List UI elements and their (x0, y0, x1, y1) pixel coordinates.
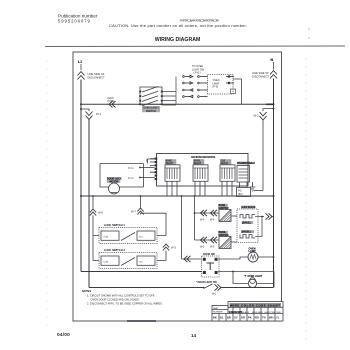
S2 left contact block (101, 231, 119, 240)
junction dot lamp/N (273, 256, 275, 258)
S3 left contact block (101, 256, 119, 265)
svg-text:OR: OR (241, 316, 245, 320)
U1 left pin strip (155, 158, 158, 181)
svg-text:LOCK SWITCH 1: LOCK SWITCH 1 (104, 223, 125, 227)
svg-text:LINE SIDE OF: LINE SIDE OF (252, 71, 269, 75)
relay K1 (bake) label (165, 159, 176, 164)
lamp receptacle label (213, 79, 220, 89)
V1 broil coil (240, 235, 255, 239)
wire receptacle row1 to main bus (233, 79, 242, 104)
table header text (230, 303, 282, 307)
connector chevron W-2 (points down) (260, 112, 267, 120)
wire x166 lower segment to lock switch 2 (157, 251, 166, 261)
frame bottom dark segment (127, 320, 156, 322)
wire W-2 vertical x263 (262, 120, 264, 191)
svg-text:(BAKE): (BAKE) (242, 222, 251, 225)
label line side of disconnect (right) (252, 71, 270, 78)
wire lamp to N rail (258, 256, 274, 258)
relay K2 pin wires to bus2 (195, 181, 205, 196)
S3 blade (121, 258, 135, 266)
connector P2 rows pins and arrows (183, 75, 208, 98)
labelled plug wire P-3 (139, 167, 141, 169)
svg-text:COM: COM (103, 237, 108, 239)
T1 legs (240, 182, 248, 188)
table mid row text (229, 310, 282, 314)
wire branch to W-1 (81, 109, 89, 111)
svg-text:DISCONNECT: DISCONNECT (88, 75, 106, 79)
svg-text:COM: COM (103, 262, 108, 264)
svg-text:BRN: BRN (258, 312, 263, 314)
connector P2 header label (192, 65, 205, 75)
svg-text:CAUTION: Use the part number: CAUTION: Use the part number on all orde… (109, 23, 247, 28)
svg-text:14: 14 (191, 333, 197, 338)
S2 right contact block (137, 231, 155, 240)
gas valve V1 box (237, 209, 258, 243)
wire drop x233 to oven light (233, 272, 248, 284)
svg-text:W-1: W-1 (212, 293, 217, 296)
labelled plug wire P-4 (139, 177, 141, 179)
svg-text:BLACK: BLACK (242, 311, 250, 314)
svg-text:W-5: W-5 (210, 246, 215, 249)
svg-text:* DOOR LIGHT SW: * DOOR LIGHT SW (196, 281, 218, 284)
connector riser joining S1 stubs to P2 rows (175, 77, 177, 106)
svg-text:W-4: W-4 (200, 219, 205, 222)
svg-text:OVEN DOOR CLOSED AND UNLOCKED.: OVEN DOOR CLOSED AND UNLOCKED. (91, 297, 140, 301)
lock switch S2 dashed box (99, 228, 157, 244)
label line side of disconnect (left) (88, 72, 106, 79)
door lock motor M1 circle (109, 183, 120, 194)
svg-text:W-6: W-6 (98, 211, 103, 215)
svg-text:W-5: W-5 (200, 246, 205, 249)
page scan dotted margin right (pink) (305, 58, 307, 340)
svg-text:W-7: W-7 (131, 210, 136, 214)
connector chevron W-8 valve to N (266, 213, 273, 219)
svg-text:NOTES: NOTES (82, 289, 91, 293)
relay K3 body (220, 165, 235, 182)
motor M1 loop top wire (100, 163, 144, 165)
wire y271.5 from L1 turn (81, 271, 202, 273)
wire main bus y104 (81, 103, 274, 105)
svg-text:DISCONNECT: DISCONNECT (252, 74, 270, 78)
wire drop x181.5 from bus2 to door switch (181, 196, 183, 259)
header rule (45, 45, 345, 48)
V1 internal output wire (255, 217, 262, 237)
connector chevron on main bus (points left) (109, 101, 116, 107)
junction thick mark bus/N (266, 103, 274, 105)
label main bus connector (108, 97, 115, 103)
table header cell (228, 302, 283, 308)
wire valve to N chevron (262, 216, 264, 218)
S1 switch blades (142, 87, 158, 106)
receptacle lower pin mark (231, 89, 236, 94)
page scan dotted margin left (46, 60, 48, 330)
relay K3 label (220, 159, 231, 164)
oven lamp DS1 circle (248, 252, 258, 262)
svg-text:W-3: W-3 (171, 246, 176, 250)
svg-text:21E302185: 21E302185 (229, 310, 243, 314)
connector chevron W-3 (up) on x166 (163, 244, 169, 251)
wire x93 down to lock switch 1 (93, 216, 99, 236)
svg-text:SWITCH: SWITCH (146, 109, 156, 113)
diagram frame (73, 52, 282, 321)
table column separators (219, 306, 275, 322)
wire color code table outer (212, 306, 283, 322)
svg-text:TRANSFORMER: TRANSFORMER (237, 162, 255, 165)
junction dot y271.5 drop (232, 271, 234, 273)
connector chevron P1 on L1 wire (points up) (78, 72, 85, 80)
wire y271.5 continues from door switch to right riser (218, 271, 274, 273)
svg-text:DOOR SW: DOOR SW (203, 253, 215, 256)
gas valve label (241, 206, 255, 209)
relay K2 body (193, 165, 208, 182)
svg-text:L1: L1 (78, 60, 82, 64)
S1 label oven light switch (142, 106, 160, 112)
riser x274 joining y271.5 and y287.5 (273, 272, 275, 288)
wire door switch to lamp (218, 257, 248, 259)
S1 pins left (139, 91, 163, 106)
S1 stubs to connector (163, 92, 176, 106)
wire y213 from W-7 to x166 (141, 213, 167, 235)
wire drop x93 from bus2 (92, 196, 94, 209)
junction dot row1 (194, 212, 196, 214)
V1 broil text (241, 230, 254, 233)
svg-text:BR: BR (227, 316, 231, 320)
wire ignitor row2 y240 (195, 239, 220, 241)
junction dot N rail/W-2 branch (273, 108, 275, 110)
svg-text:N.O.: N.O. (139, 237, 144, 239)
U1 pin stubs left (147, 159, 155, 173)
svg-text:BL: BL (220, 316, 224, 320)
svg-text:TN: TN (262, 316, 266, 320)
table bottom row text (213, 316, 280, 320)
wire drop x140.5 from bus2 (140, 196, 142, 208)
wire y287.5 continues to N rail bottom (221, 287, 274, 289)
svg-text:ELECTRONIC OVEN CONTROL: ELECTRONIC OVEN CONTROL (191, 155, 216, 159)
svg-text:( P-8 ): ( P-8 ) (194, 72, 201, 75)
svg-text:HARN: HARN (108, 100, 115, 103)
svg-text:PK: PK (248, 316, 252, 320)
table row divider (212, 310, 283, 314)
svg-text:LINE SIDE OF: LINE SIDE OF (88, 72, 105, 76)
connector chevron W-7 (up) on x140.5 (137, 208, 143, 215)
svg-text:1. CIRCUIT SHOWN WITH ALL CON: 1. CIRCUIT SHOWN WITH ALL CONTROLS SET T… (87, 293, 155, 297)
svg-text:2. DISCONNECT APPL. TO BE USE: 2. DISCONNECT APPL. TO BE USED COPPER ON… (87, 301, 162, 305)
wire chevron to N rail (272, 216, 274, 218)
door switch S4 box (202, 256, 220, 277)
wire N rail x273.5 (273, 79, 275, 288)
V1 bake text (242, 221, 254, 224)
relay K3 pin wires to bus2 (222, 181, 232, 196)
svg-text:OVEN LIGHT: OVEN LIGHT (248, 275, 263, 278)
svg-text:RD: RD (255, 316, 259, 320)
svg-text:04/00: 04/00 (57, 332, 70, 338)
junction dot bus2/L1 (80, 195, 82, 197)
door lock motor M1 label (107, 177, 121, 183)
connector chevron W-9 door switch (left) (184, 256, 191, 262)
svg-text:P-4 o: P-4 o (128, 177, 134, 180)
wire W-2 branch from N rail (263, 109, 274, 111)
svg-text:N: N (271, 58, 274, 62)
wire y259 to door switch (182, 258, 202, 260)
S4 plunger (207, 263, 215, 270)
S3 right contact block (137, 256, 155, 265)
wire ignitor row1 y213 (195, 212, 220, 214)
junction dot bus/N (273, 103, 275, 105)
svg-text:W-1: W-1 (96, 112, 102, 116)
stray scan dot pink (308, 37, 310, 39)
connector chevron W-10 (right) (215, 284, 222, 290)
junction dot L1/bus1 (80, 103, 82, 105)
wire W-1 vertical x89 (88, 120, 90, 288)
connector chevron W-6 (up) on x93 (90, 209, 96, 216)
lamp receptacle right pins (226, 76, 234, 84)
wire x263 to DSI module (254, 190, 264, 192)
connector chevron W-1 (points down) (86, 112, 93, 120)
motor M1 loop left wire (99, 164, 101, 188)
bake ignitor label (218, 204, 228, 209)
connector chevrons W-5 row2 (201, 237, 218, 243)
door light switch S5 blade (204, 284, 213, 289)
broil ignitor label (218, 231, 228, 236)
svg-text:WIRE COLOR CODE CHART: WIRE COLOR CODE CHART (230, 303, 280, 307)
wire ignitor2 to valve bottom (231, 241, 237, 243)
wire oven light to right riser (257, 282, 274, 284)
svg-text:P-5: P-5 (238, 191, 242, 193)
header publication number text (58, 14, 98, 24)
svg-text:WIRING DIAGRAM: WIRING DIAGRAM (155, 37, 201, 43)
oven light DS2 label (245, 275, 263, 278)
connector chevrons W-4 row1 (201, 210, 218, 216)
svg-text:5995206079: 5995206079 (58, 19, 91, 24)
relay K1 body (165, 165, 180, 182)
transformer T1 body (237, 166, 250, 183)
svg-text:YL: YL (276, 316, 280, 320)
svg-text:GAS VALVE: GAS VALVE (242, 206, 256, 209)
svg-text:N.O.: N.O. (139, 262, 144, 264)
DSI module sub box (237, 188, 251, 197)
electronic oven control U1 box (157, 154, 249, 187)
S4 pins (203, 258, 218, 274)
motor M1 loop right wire (143, 164, 145, 188)
oven lamp DS1 label (249, 248, 256, 254)
stray scan dot gray (308, 28, 310, 30)
broil ignitor body (hatched square) (219, 237, 231, 249)
transformer T1 label (237, 162, 250, 165)
relay K1 pin wires to bus2 (167, 181, 177, 196)
svg-text:(P-9): (P-9) (213, 86, 219, 89)
svg-text:PINK: PINK (271, 312, 277, 314)
junction dots bus2 drops (92, 195, 94, 197)
svg-text:(BROIL): (BROIL) (242, 231, 251, 234)
bake ignitor body (hatched square) (219, 210, 231, 222)
wire drop x194.5 from bus2 to ignitor rows (194, 196, 196, 240)
node N terminal wire (273, 62, 275, 70)
header model numbers text (109, 18, 247, 28)
wire L1 vertical x81 (80, 80, 82, 272)
svg-text:LOCK SWITCH 2: LOCK SWITCH 2 (104, 248, 125, 252)
junction dot L1/branch W-1 (80, 108, 82, 110)
wire ignitor1 to valve (231, 215, 237, 217)
svg-text:FGF379CJBA,FGF379CJSA,FGF379CJ: FGF379CJBA,FGF379CJSA,FGF379CJTA (180, 18, 219, 22)
wire U1 stub y159 (148, 159, 155, 164)
connector chevron on N wire (points up) (270, 71, 277, 79)
svg-text:P-3 o: P-3 o (128, 167, 134, 170)
lock switch S3 dashed box (99, 253, 157, 269)
wire bus2 y196 (81, 195, 274, 197)
svg-text:RED: RED (277, 312, 282, 314)
svg-text:W-4: W-4 (210, 219, 215, 222)
wire L1 drop from terminal (80, 64, 82, 70)
motor M1 loop bottom wires (100, 186, 144, 188)
S2 blade (121, 233, 135, 241)
ground symbol at control (250, 182, 256, 191)
wire y287.5 from W-1 turn (89, 287, 204, 289)
svg-text:W-2: W-2 (254, 114, 260, 118)
V1 bake coil (240, 215, 255, 219)
junction dot valve output (261, 216, 263, 218)
relay K2 (broil) label (193, 159, 204, 164)
svg-text:WH: WH (269, 316, 273, 320)
oven lamp receptacle dashed box (208, 75, 234, 95)
wire x93 down to lock switch 2 (93, 236, 99, 261)
oven light DS2 circles (248, 279, 256, 287)
svg-text:GY: GY (234, 316, 238, 320)
svg-text:BK: BK (213, 316, 217, 320)
oven light switch S1 box (140, 87, 162, 104)
